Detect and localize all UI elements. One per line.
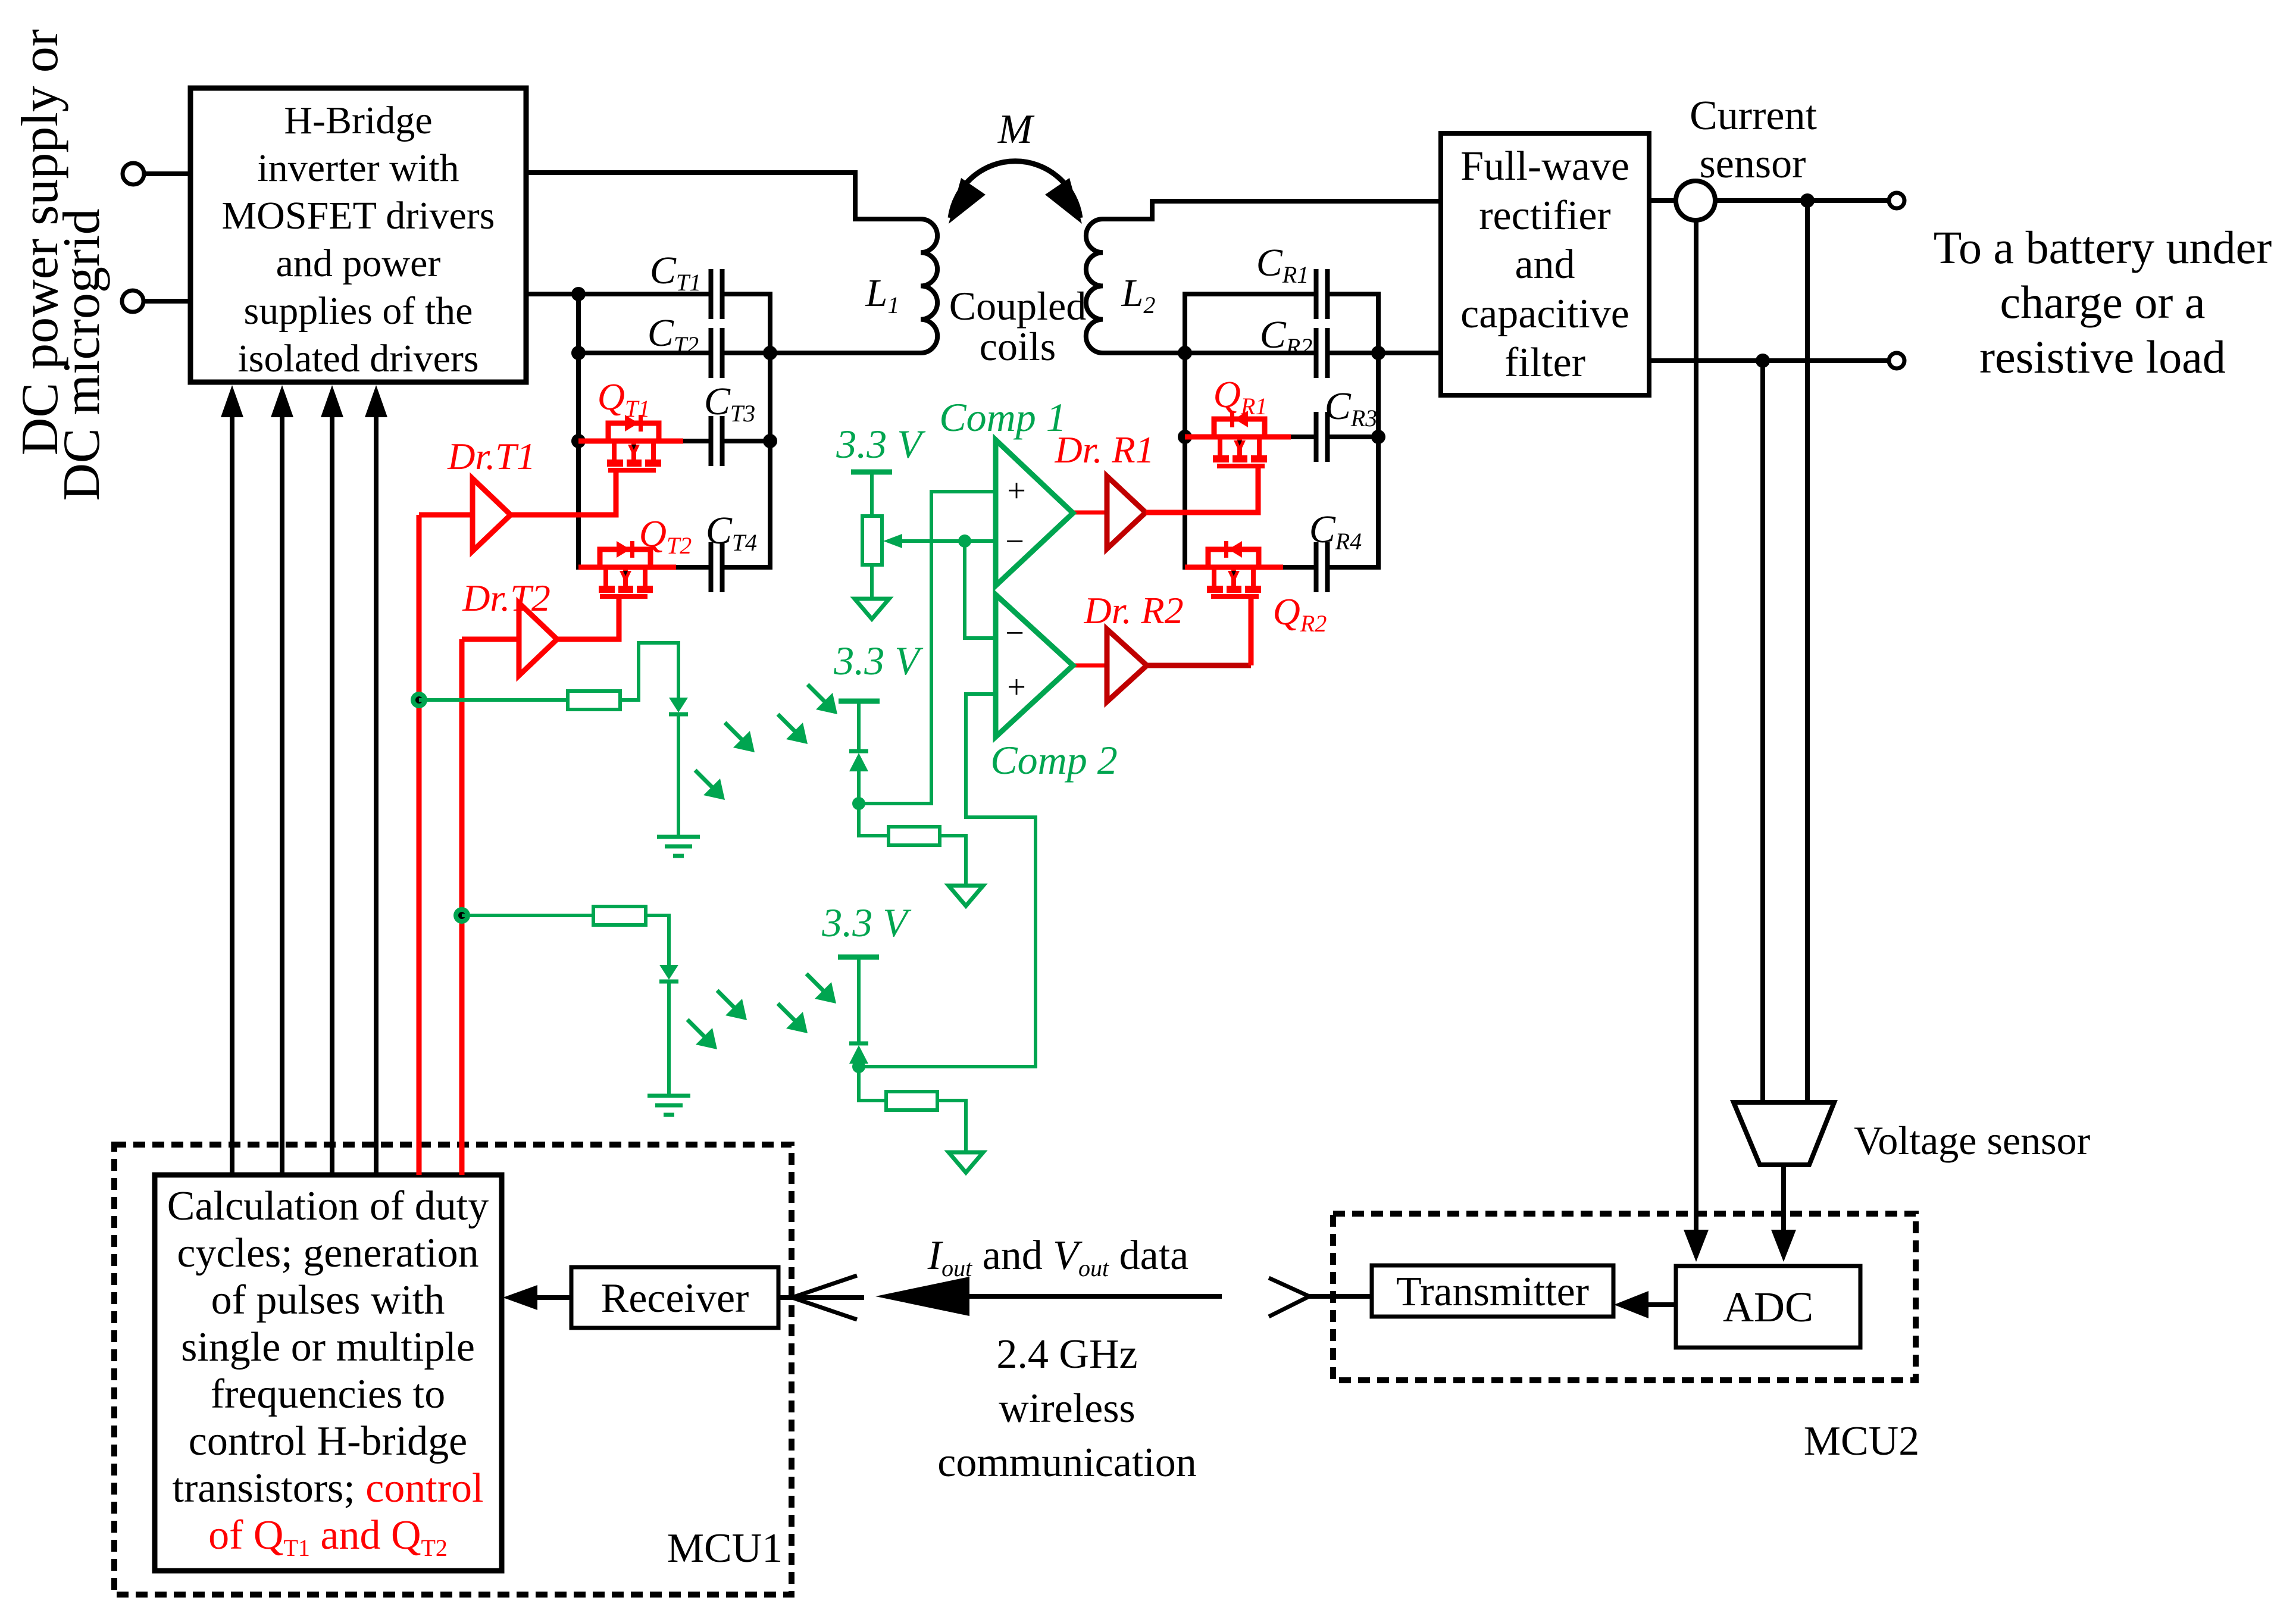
driver Dr.R1: [1107, 476, 1146, 549]
svg-text:wireless: wireless: [999, 1386, 1135, 1431]
svg-text:coils: coils: [980, 324, 1056, 369]
wire QT2 main line: [578, 565, 676, 570]
svg-text:−: −: [1005, 523, 1024, 560]
capacitor CR2: [1316, 328, 1328, 378]
wire QR2 gate riser: [1249, 596, 1254, 665]
wire CR1 row: [1185, 292, 1378, 296]
svg-text:Current: Current: [1690, 93, 1817, 139]
arrowhead voltage line into ADC: [1771, 1230, 1796, 1262]
wire CT2 row: [578, 351, 770, 355]
svg-text:Comp 1: Comp 1: [939, 395, 1066, 440]
capacitor CT3: [711, 416, 722, 466]
svg-text:Dr.T1: Dr.T1: [447, 435, 536, 477]
svg-text:filter: filter: [1504, 340, 1585, 386]
arrowhead control line 3: [321, 385, 343, 417]
light arrow A2: [725, 723, 744, 742]
wire Dr.T2 output to QT2 gate: [557, 595, 619, 639]
wire Dr.T1 input: [419, 512, 473, 518]
svg-text:resistive load: resistive load: [1979, 331, 2226, 383]
svg-text:To a battery under: To a battery under: [1934, 221, 2272, 273]
svg-text:+: +: [1007, 473, 1026, 509]
wire H-bridge lower output: [526, 292, 578, 296]
node tap optocoupler B on QT2 drive line: [453, 907, 470, 924]
power supply bar B: [838, 955, 879, 960]
ADC box: [1676, 1266, 1860, 1348]
svg-text:−: −: [1005, 615, 1024, 652]
svg-text:capacitive: capacitive: [1460, 291, 1629, 337]
junction node CR3 right: [1371, 430, 1385, 444]
svg-text:frequencies to: frequencies to: [211, 1371, 446, 1417]
capacitor CR1: [1316, 269, 1328, 319]
light arrow A1: [695, 770, 714, 789]
mutual inductance arc M: [950, 161, 1080, 218]
LED D3: [659, 965, 678, 980]
light arrow A3: [778, 714, 797, 733]
svg-text:DC microgrid: DC microgrid: [53, 208, 111, 501]
MCU1 calculation box: [155, 1175, 502, 1571]
transistor QT1: [608, 423, 659, 441]
junction node CT3 left: [571, 434, 586, 448]
power supply bar A: [839, 699, 880, 704]
potentiometer RP1: [862, 516, 882, 565]
junction node CT top: [571, 287, 586, 301]
svg-text:and: and: [1515, 242, 1575, 287]
terminal load top: [1889, 193, 1904, 208]
wire Comp2 output: [1071, 664, 1108, 668]
wire potentiometer to ground: [870, 565, 874, 599]
wire L1 bottom to CT2 row: [770, 351, 921, 355]
node tap optocoupler A on QT1 drive line: [411, 692, 427, 708]
wire Comp1 output: [1071, 511, 1108, 515]
driver Dr.T1: [473, 479, 511, 551]
op-amp Comp1: [996, 440, 1073, 586]
junction node CR2 left: [1178, 346, 1192, 360]
wire LED1 to ground: [677, 714, 680, 837]
light arrow B3: [778, 1004, 797, 1023]
svg-text:rectifier: rectifier: [1479, 193, 1610, 239]
svg-text:ADC: ADC: [1723, 1283, 1813, 1331]
light arrow B4: [806, 974, 825, 993]
wire Dr.T2 input: [462, 637, 519, 642]
wire CT4 row right of QT2: [676, 565, 770, 570]
arrowhead control line 2: [271, 385, 293, 417]
wire voltage sensor to ADC: [1781, 1165, 1786, 1231]
junction node CR2 right: [1371, 346, 1385, 360]
resistor R1 optocoupler A: [568, 691, 620, 709]
wire Dr.T1 output to QT1 gate: [511, 470, 616, 515]
node photodiode A: [852, 797, 865, 810]
wire rectifier top output: [1649, 198, 1676, 203]
wire minus net to Comp2 minus input: [965, 541, 996, 638]
svg-text:H-Bridge: H-Bridge: [284, 99, 432, 142]
svg-text:charge or a: charge or a: [2000, 276, 2205, 328]
wire supply to potentiometer: [870, 472, 874, 516]
svg-text:Full-wave: Full-wave: [1460, 143, 1629, 189]
arrowhead data arrow: [875, 1277, 969, 1316]
svg-text:Dr. R2: Dr. R2: [1083, 589, 1183, 632]
wire input top: [143, 171, 190, 176]
light arrow B2: [717, 990, 736, 1009]
wire tap B to resistor: [462, 914, 593, 917]
node comp minus net: [958, 534, 971, 548]
wire RX right bus: [1376, 292, 1381, 570]
svg-text:isolated drivers: isolated drivers: [237, 337, 478, 380]
svg-text:3.3 V: 3.3 V: [836, 421, 926, 467]
wire resistor A to LED1: [620, 643, 678, 700]
transmitter box: [1372, 1265, 1613, 1317]
svg-text:cycles; generation: cycles; generation: [177, 1230, 478, 1276]
svg-text:Transmitter: Transmitter: [1396, 1269, 1589, 1315]
svg-text:Dr.T2: Dr.T2: [462, 577, 550, 619]
wire supply A to photodiode: [857, 701, 861, 751]
wire MCU1 control line 1: [230, 417, 234, 1175]
transistor QR2: [1208, 549, 1259, 567]
wire MCU1 control line 4: [374, 417, 379, 1175]
wire CT1 row: [578, 292, 770, 296]
svg-text:Comp 2: Comp 2: [990, 737, 1117, 783]
svg-text:MCU1: MCU1: [667, 1526, 783, 1571]
terminal input top: [123, 163, 144, 185]
antenna fan right: [1269, 1278, 1309, 1317]
junction node top rail: [1800, 193, 1815, 208]
wire tap A to resistor: [419, 698, 568, 702]
wire receiver antenna stub: [778, 1295, 864, 1300]
wire QR1 main line: [1185, 434, 1291, 440]
ground earth LED1: [657, 837, 700, 856]
wire CR3 row right of QR1: [1291, 434, 1378, 439]
photodiode D4: [849, 1042, 868, 1046]
resistor R3 optocoupler B: [593, 906, 646, 925]
svg-text:2.4 GHz: 2.4 GHz: [996, 1331, 1137, 1377]
svg-text:+: +: [1007, 669, 1026, 706]
transistor QT2: [600, 549, 650, 567]
wire Dr.R2 output to QR2 gate: [1147, 663, 1251, 668]
svg-text:Coupled: Coupled: [949, 283, 1086, 329]
op-amp Comp2: [996, 595, 1073, 737]
svg-text:supplies of the: supplies of the: [244, 289, 473, 333]
arrowhead control line 1: [221, 385, 243, 417]
wire RX left bus: [1183, 292, 1187, 570]
light arrow A4: [808, 684, 827, 704]
svg-text:transistors; control: transistors; control: [173, 1465, 484, 1511]
ground triangle A: [949, 886, 983, 906]
svg-text:of pulses with: of pulses with: [211, 1277, 445, 1323]
wire transmitter antenna stub: [1307, 1294, 1372, 1299]
svg-text:of QT1 and QT2: of QT1 and QT2: [208, 1512, 448, 1561]
capacitor CT1: [711, 269, 722, 319]
wire resistor R2 to ground: [940, 836, 966, 886]
arrowhead ADC to transmitter: [1614, 1291, 1649, 1318]
wire current sensor to ADC: [1694, 220, 1698, 1231]
wire TX left bus: [576, 294, 581, 570]
LED D1: [669, 698, 688, 712]
svg-text:Voltage sensor: Voltage sensor: [1854, 1118, 2091, 1163]
terminal load bottom: [1889, 353, 1904, 368]
svg-text:MOSFET drivers: MOSFET drivers: [222, 194, 495, 237]
driver Dr.R2: [1107, 629, 1147, 702]
svg-text:MCU2: MCU2: [1804, 1418, 1919, 1464]
svg-text:single or multiple: single or multiple: [181, 1324, 475, 1370]
capacitor CT4: [711, 542, 722, 592]
arrowhead M right: [1045, 178, 1082, 224]
capacitor CR4: [1316, 542, 1328, 592]
wire MCU1 control line 2: [280, 417, 284, 1175]
wire top rail node to voltage sensor: [1805, 201, 1810, 1102]
wire QT1 main line: [578, 439, 683, 444]
wire node A to Comp1 plus input: [859, 492, 996, 804]
wire photodiode B to node: [857, 1064, 861, 1067]
wire top rail to load: [1715, 198, 1889, 203]
svg-text:sensor: sensor: [1700, 141, 1806, 187]
wire TX right bus: [768, 292, 772, 570]
wire CR2 row: [1185, 351, 1441, 355]
light arrow B1: [687, 1020, 706, 1039]
wire node B to resistor R4: [859, 1067, 886, 1101]
wire bottom rail node to voltage sensor: [1760, 361, 1765, 1102]
wire photodiode A to node: [857, 771, 861, 804]
svg-text:communication: communication: [937, 1440, 1196, 1486]
current sensor CS1: [1676, 181, 1715, 220]
capacitor CT2: [711, 328, 722, 378]
driver Dr.T2: [519, 603, 557, 676]
photodiode D2: [849, 749, 868, 754]
resistor R2 pull-down A: [889, 827, 940, 845]
receiver box: [571, 1267, 778, 1328]
svg-text:inverter with: inverter with: [257, 146, 459, 190]
voltage sensor VS1: [1734, 1102, 1834, 1165]
arrowhead receiver to calc: [503, 1285, 537, 1310]
arrowhead M left: [949, 178, 986, 224]
svg-text:Calculation of duty: Calculation of duty: [167, 1183, 489, 1229]
svg-text:M: M: [997, 107, 1035, 152]
svg-text:and power: and power: [276, 242, 441, 285]
svg-text:3.3 V: 3.3 V: [833, 638, 924, 683]
MCU2 dashed box: [1333, 1214, 1916, 1380]
wire resistor B to LED2: [646, 915, 669, 965]
svg-text:Dr. R1: Dr. R1: [1054, 429, 1154, 471]
wire node B to Comp2 plus input: [859, 694, 1036, 1067]
wire node A to resistor R2: [859, 804, 889, 836]
wire QR2 main line: [1185, 565, 1283, 570]
full-wave rectifier box U2: [1441, 133, 1649, 395]
svg-text:3.3 V: 3.3 V: [821, 900, 912, 945]
junction node bottom rail: [1756, 354, 1770, 368]
wire MCU1 gate drive line QT1: [417, 515, 422, 1175]
antenna fan left: [792, 1276, 857, 1320]
wire ADC to transmitter: [1647, 1302, 1676, 1307]
junction node CT2 left: [571, 346, 586, 360]
wire receiver to calculation box: [537, 1295, 571, 1300]
inductor L1: [921, 219, 937, 353]
junction node CT2 right: [763, 346, 777, 360]
wire CR4 row right of QR2: [1283, 565, 1378, 570]
resistor R4 pull-down B: [886, 1092, 937, 1110]
wire data arrow shaft: [967, 1294, 1222, 1299]
inductor L2: [1086, 219, 1103, 353]
wire Dr.R1 output to QR1 gate: [1146, 466, 1258, 512]
wire LED2 to ground: [667, 981, 671, 1096]
wiper arrow potentiometer: [899, 539, 996, 543]
MCU1 dashed box: [114, 1145, 792, 1595]
junction node CT3 right: [763, 434, 777, 448]
wire resistor R4 to ground: [937, 1101, 966, 1152]
wire MCU1 gate drive line QT2: [459, 639, 465, 1175]
transistor QR1: [1214, 419, 1265, 437]
ground triangle B: [949, 1152, 983, 1173]
node photodiode B: [852, 1060, 865, 1073]
wire H-bridge top output to L1: [526, 173, 921, 219]
wire L2 top to rectifier: [1103, 201, 1441, 219]
capacitor CR3: [1316, 412, 1328, 462]
arrowhead current line into ADC: [1684, 1230, 1709, 1262]
power supply bar pot: [851, 470, 892, 475]
svg-text:Receiver: Receiver: [601, 1276, 749, 1321]
arrowhead control line 4: [365, 385, 387, 417]
wire input bottom: [143, 299, 190, 304]
terminal input bottom: [122, 290, 143, 312]
H-bridge inverter box U1: [190, 88, 526, 382]
svg-text:control H-bridge: control H-bridge: [189, 1418, 467, 1464]
wire L2 bottom to RX bus: [1103, 351, 1185, 355]
wire supply B to photodiode: [857, 957, 861, 1043]
ground triangle pot: [855, 599, 889, 619]
ground earth LED2: [647, 1096, 690, 1115]
wire CT3 row right of QT1: [683, 439, 770, 443]
junction node CR3 left: [1178, 430, 1192, 444]
wire rectifier bottom output: [1649, 358, 1889, 363]
wire MCU1 control line 3: [330, 417, 334, 1175]
